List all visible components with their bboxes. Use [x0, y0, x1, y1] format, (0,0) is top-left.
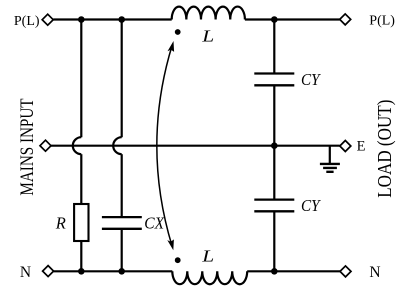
- wire hop crossover R branch over E rail: [73, 137, 82, 154]
- svg-text:CX: CX: [144, 215, 165, 233]
- svg-text:L: L: [201, 248, 214, 266]
- ground symbol bars: [320, 164, 340, 172]
- svg-text:CY: CY: [301, 72, 322, 90]
- wire vertical branch CX upper: [121, 20, 123, 138]
- terminal diamond E-rail input: [40, 140, 51, 151]
- wire E rail to CY bottom: [273, 146, 275, 200]
- inductor L (bottom, common-mode choke winding 2): [172, 271, 247, 284]
- svg-text:N: N: [20, 264, 31, 281]
- wire vertical branch R upper: [80, 20, 82, 138]
- wire vertical branch CX mid: [121, 154, 123, 217]
- terminal diamond P(L) input: [42, 14, 53, 25]
- terminal diamond E output: [340, 141, 351, 152]
- phasing dot bottom winding: [175, 257, 181, 263]
- wire below resistor R: [80, 241, 82, 271]
- svg-text:CY: CY: [301, 198, 322, 216]
- svg-text:MAINS INPUT: MAINS INPUT: [16, 98, 37, 196]
- wire hop crossover CX branch over E rail: [113, 137, 122, 154]
- junction dot bottom rail at CX branch: [118, 268, 125, 275]
- wire bottom rail left segment: [54, 270, 173, 272]
- wire below CY bottom: [273, 211, 275, 271]
- terminal diamond P(L) output: [340, 14, 351, 25]
- terminal diamond N output: [340, 266, 351, 277]
- capacitor CY bottom plates: [254, 200, 294, 212]
- junction dot top rail at CX branch: [118, 16, 125, 23]
- wire CY top to E rail: [273, 85, 275, 145]
- wire vertical branch R lower: [80, 154, 82, 204]
- wire vertical branch CY upper: [273, 20, 275, 74]
- capacitor CY top plates: [254, 74, 294, 86]
- terminal diamond N input: [43, 266, 54, 277]
- wire top rail right segment: [245, 18, 340, 20]
- svg-text:P(L): P(L): [14, 14, 40, 29]
- capacitor CX plates: [102, 217, 142, 229]
- coupling arrowhead bottom: [167, 239, 174, 250]
- coupling arrowhead top: [168, 41, 175, 52]
- junction dot bottom rail at CY branch: [271, 268, 278, 275]
- wire top rail left segment: [53, 18, 172, 20]
- svg-text:L: L: [201, 28, 214, 46]
- phasing dot top winding: [175, 29, 181, 35]
- junction dot bottom rail at R branch: [78, 268, 85, 275]
- resistor R body: [74, 204, 88, 241]
- svg-text:E: E: [357, 139, 366, 155]
- junction dot top rail at CY branch: [271, 16, 278, 23]
- wire bottom rail right segment: [247, 270, 340, 272]
- inductor L (top, common-mode choke winding 1): [172, 7, 245, 20]
- junction dot top rail at R branch: [78, 16, 85, 23]
- svg-text:P(L): P(L): [369, 14, 395, 29]
- wire below CX: [121, 229, 123, 271]
- svg-text:LOAD (OUT): LOAD (OUT): [374, 100, 397, 198]
- ground stub wire: [329, 146, 331, 164]
- junction dot E rail at CY branch: [271, 142, 278, 149]
- svg-text:R: R: [55, 214, 66, 233]
- wire middle rail (E rail): [51, 145, 340, 147]
- svg-text:N: N: [369, 264, 380, 281]
- coupling arrow arc (mutual inductance): [157, 46, 172, 246]
